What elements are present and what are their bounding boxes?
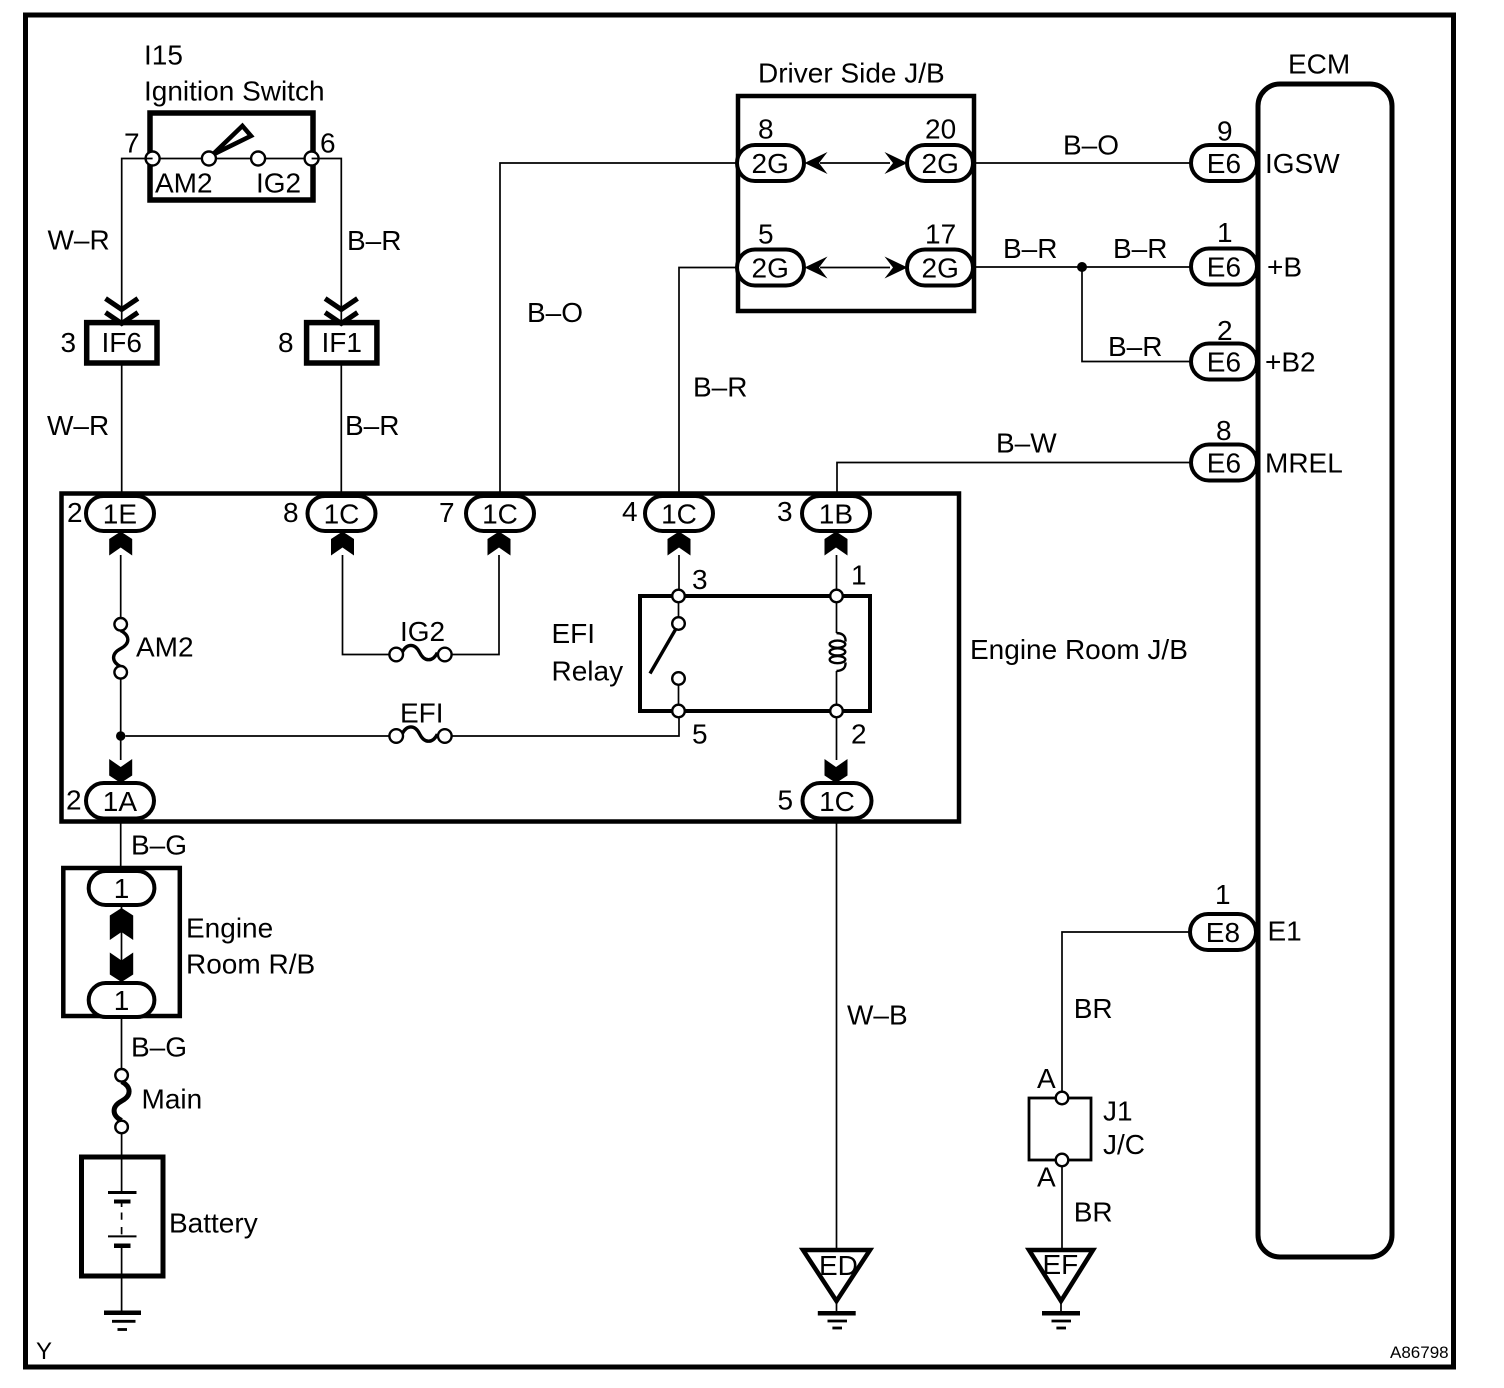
svg-text:Ignition Switch: Ignition Switch — [144, 76, 325, 107]
svg-text:EFI: EFI — [552, 618, 596, 649]
svg-text:Battery: Battery — [169, 1207, 258, 1238]
wire junction to 1A — [120, 736, 122, 760]
svg-text:9: 9 — [1217, 115, 1233, 146]
relay pin 1 terminal — [830, 590, 843, 603]
arrow into 2G pin 20 — [885, 152, 908, 174]
svg-text:IG2: IG2 — [256, 167, 301, 198]
svg-text:B–R: B–R — [1108, 331, 1162, 362]
battery plate 2 — [114, 1200, 131, 1204]
svg-text:B–R: B–R — [693, 372, 747, 403]
svg-text:AM2: AM2 — [155, 167, 213, 198]
connector 1A oval — [86, 783, 154, 819]
svg-text:8: 8 — [758, 114, 774, 145]
svg-text:3: 3 — [777, 496, 793, 527]
svg-text:5: 5 — [778, 785, 794, 816]
svg-text:EFI: EFI — [400, 697, 444, 728]
svg-text:W–R: W–R — [48, 224, 110, 255]
svg-text:E8: E8 — [1206, 917, 1240, 948]
svg-text:J/C: J/C — [1103, 1129, 1145, 1160]
svg-text:Driver Side J/B: Driver Side J/B — [758, 58, 945, 89]
svg-text:IF1: IF1 — [322, 327, 362, 358]
wire inside R/B — [121, 905, 123, 983]
arrow into 1E — [109, 532, 132, 556]
svg-text:8: 8 — [283, 497, 299, 528]
svg-text:A: A — [1037, 1063, 1056, 1094]
arrow into 2G pin 5 — [805, 257, 828, 279]
svg-text:8: 8 — [278, 327, 294, 358]
connector 1 upper oval — [89, 871, 155, 905]
svg-text:1C: 1C — [661, 499, 697, 530]
svg-text:B–G: B–G — [131, 1031, 187, 1062]
Driver Side J/B box — [738, 96, 974, 311]
connector 1C pin 7 oval — [466, 496, 534, 531]
arrow into 1A — [109, 759, 132, 783]
connector 1E oval — [86, 496, 154, 531]
wire IG2 fuse to 1C7 — [452, 555, 499, 655]
fuse IG2 — [402, 645, 437, 659]
connector 1 lower oval — [89, 983, 155, 1017]
connector 1B oval — [802, 496, 870, 531]
arrow down inside R/B — [110, 953, 133, 983]
svg-text:IGSW: IGSW — [1265, 148, 1340, 179]
connector E6 pin 1 oval — [1191, 249, 1257, 285]
svg-text:7: 7 — [124, 127, 140, 158]
wire pin7 to IF6 — [122, 159, 153, 323]
svg-text:6: 6 — [320, 127, 336, 158]
wire R/B to Main link — [121, 1017, 123, 1069]
svg-text:Engine Room J/B: Engine Room J/B — [970, 634, 1188, 665]
wire 1C4 to relay pin 3 — [678, 555, 680, 590]
svg-text:Main: Main — [142, 1083, 203, 1114]
svg-text:2G: 2G — [922, 148, 959, 179]
ignition switch AM2 contact — [202, 152, 216, 166]
battery box — [82, 1157, 164, 1276]
svg-text:I15: I15 — [144, 40, 183, 71]
ignition switch pin 7 terminal — [146, 152, 160, 166]
connector 2G pin 20 oval — [907, 145, 973, 181]
ground ED bars — [818, 1311, 856, 1316]
ignition switch internal wire — [153, 158, 312, 160]
ground EF triangle — [1029, 1250, 1093, 1301]
arrow into 2G pin 17 — [885, 257, 908, 279]
relay coil wire lower — [836, 671, 838, 705]
junction node on +B wire — [1077, 262, 1087, 272]
svg-text:1C: 1C — [482, 499, 518, 530]
battery plate 4 — [114, 1243, 131, 1248]
relay coil — [837, 633, 846, 642]
svg-text:2: 2 — [1217, 315, 1233, 346]
wire 2G pin17 to ECM +B — [973, 266, 1191, 268]
svg-text:B–R: B–R — [345, 410, 399, 441]
connector E6 pin 8 oval — [1191, 445, 1257, 481]
svg-text:2G: 2G — [752, 148, 789, 179]
wire 2G pin5 to 1C pin4 — [679, 268, 737, 497]
connector chevrons above IF6 — [106, 299, 138, 324]
wire inside Driver Side J/B row 2 — [820, 267, 890, 269]
svg-text:2G: 2G — [922, 253, 959, 284]
svg-text:2: 2 — [851, 718, 867, 749]
ground ED triangle — [803, 1250, 870, 1301]
arrow into 1B — [825, 532, 848, 556]
svg-text:E6: E6 — [1207, 148, 1241, 179]
svg-text:B–R: B–R — [347, 225, 401, 256]
svg-text:BR: BR — [1074, 993, 1113, 1024]
battery dashed center — [121, 1202, 123, 1235]
fusible link Main — [114, 1082, 129, 1121]
wire 1A to Engine Room R/B — [120, 819, 122, 872]
fuse EFI — [402, 727, 437, 741]
relay coil wire upper — [836, 602, 838, 633]
svg-text:7: 7 — [439, 497, 455, 528]
connector 2G pin 5 oval — [737, 250, 804, 286]
svg-text:1C: 1C — [324, 499, 360, 530]
ground ED stem — [836, 1301, 838, 1311]
wire Main to battery — [121, 1133, 123, 1157]
arrow into 1C pin 8 — [331, 532, 354, 556]
svg-text:J1: J1 — [1103, 1095, 1133, 1126]
ignition switch lever — [213, 126, 252, 155]
svg-text:1E: 1E — [103, 499, 137, 530]
svg-text:AM2: AM2 — [136, 631, 194, 662]
svg-text:Engine: Engine — [186, 912, 273, 943]
wire ECM MREL to 1B — [837, 463, 1191, 497]
svg-text:5: 5 — [692, 718, 708, 749]
relay pin 3 terminal — [672, 590, 685, 603]
svg-text:IG2: IG2 — [400, 616, 445, 647]
svg-text:Y: Y — [36, 1338, 52, 1365]
svg-text:EF: EF — [1043, 1249, 1079, 1280]
relay switch lower contact — [672, 672, 685, 685]
ignition switch pin 6 terminal — [305, 152, 319, 166]
svg-text:20: 20 — [925, 114, 956, 145]
svg-text:B–O: B–O — [527, 297, 583, 328]
svg-text:A: A — [1037, 1161, 1056, 1192]
wire 1C8 to IG2 fuse — [343, 555, 390, 655]
svg-text:E6: E6 — [1207, 252, 1241, 283]
svg-text:B–W: B–W — [996, 428, 1057, 459]
wire IF1 to 1C — [340, 363, 342, 496]
wire IF6 to 1E — [121, 363, 123, 496]
svg-text:17: 17 — [925, 218, 956, 249]
svg-text:2: 2 — [66, 785, 82, 816]
connector E8 pin 1 oval — [1190, 914, 1256, 950]
connector E6 pin 2 oval — [1191, 344, 1257, 380]
relay switch wire lower — [678, 685, 680, 705]
wire 1C5 to ED ground — [836, 819, 838, 1251]
svg-text:W–R: W–R — [47, 410, 109, 441]
wire junction to EFI fuse — [125, 735, 389, 737]
connector 1C pin 4 oval — [645, 496, 713, 531]
svg-text:B–G: B–G — [131, 829, 187, 860]
connector 1C pin 8 oval — [308, 496, 376, 531]
svg-text:1: 1 — [114, 985, 130, 1016]
arrow into 2G pin 8 — [805, 152, 828, 174]
wire 2G pin8 to 1C pin7 — [500, 163, 737, 496]
relay switch arm — [650, 630, 676, 674]
svg-text:1: 1 — [114, 873, 130, 904]
svg-text:MREL: MREL — [1265, 448, 1343, 479]
arrow up inside R/B — [110, 908, 133, 940]
svg-text:1: 1 — [1215, 879, 1231, 910]
svg-text:8: 8 — [1216, 415, 1232, 446]
svg-text:5: 5 — [758, 218, 774, 249]
svg-text:1A: 1A — [103, 786, 138, 817]
connector 2G pin 8 oval — [737, 145, 804, 181]
svg-text:B–O: B–O — [1063, 129, 1119, 160]
ground below battery — [104, 1310, 141, 1315]
connector 2G pin 17 oval — [907, 250, 973, 286]
svg-text:+B: +B — [1267, 252, 1302, 283]
fuse AM2 — [114, 631, 128, 667]
arrow into 1C pin 7 — [488, 532, 511, 556]
ECM box — [1258, 84, 1392, 1257]
relay pin 5 terminal — [672, 705, 685, 718]
junction node above 1A — [116, 731, 125, 740]
svg-text:A86798: A86798 — [1390, 1343, 1449, 1362]
relay switch wire upper — [678, 602, 680, 617]
svg-text:2: 2 — [67, 497, 83, 528]
wire AM2 fuse to junction — [120, 679, 122, 736]
svg-text:E1: E1 — [1268, 915, 1302, 946]
svg-text:IF6: IF6 — [102, 327, 142, 358]
wire 2G pin20 to ECM IGSW — [973, 162, 1191, 164]
svg-text:E6: E6 — [1207, 347, 1241, 378]
svg-text:3: 3 — [61, 327, 77, 358]
ignition switch I15 box — [150, 113, 313, 200]
svg-text:+B2: +B2 — [1265, 347, 1316, 378]
wire E8 to J1 J/C — [1062, 932, 1190, 1092]
battery plate 3 — [108, 1235, 137, 1237]
arrow into 1C pin 4 — [668, 532, 691, 556]
arrow into 1C pin 5 — [825, 759, 848, 783]
connector 1C pin 5 oval — [803, 783, 872, 819]
Engine Room R/B box — [63, 868, 180, 1016]
wire J/C to EF ground — [1061, 1166, 1063, 1250]
wire relay pin 2 to 1C5 — [836, 717, 838, 760]
svg-text:B–R: B–R — [1003, 233, 1057, 264]
svg-text:E6: E6 — [1207, 448, 1241, 479]
svg-text:ECM: ECM — [1288, 48, 1350, 79]
svg-text:BR: BR — [1074, 1196, 1113, 1227]
wire 1B to relay pin 1 — [836, 555, 838, 590]
svg-text:2G: 2G — [752, 253, 789, 284]
wire pin6 to IF1 — [312, 159, 342, 323]
ground EF bars — [1042, 1311, 1080, 1316]
svg-text:1: 1 — [1217, 217, 1233, 248]
svg-text:3: 3 — [692, 564, 708, 595]
junction connector J1 J/C box — [1029, 1098, 1091, 1160]
svg-text:ED: ED — [819, 1250, 858, 1281]
battery plate 1 — [108, 1191, 137, 1194]
svg-text:Relay: Relay — [552, 655, 624, 686]
wire inside Driver Side J/B row 1 — [820, 162, 890, 164]
connector chevrons above IF1 — [325, 299, 357, 324]
wire junction to ECM +B2 — [1082, 267, 1191, 362]
connector E6 pin 9 oval — [1191, 145, 1257, 181]
ignition switch IG2 contact — [251, 152, 265, 166]
J/C terminal A lower — [1056, 1154, 1069, 1167]
relay switch upper contact — [672, 617, 685, 630]
fuse IF6 box — [87, 323, 157, 363]
wire EFI fuse to relay pin 5 — [452, 717, 679, 736]
svg-text:B–R: B–R — [1113, 233, 1167, 264]
svg-text:1: 1 — [851, 559, 867, 590]
svg-text:1B: 1B — [819, 499, 853, 530]
svg-text:4: 4 — [622, 496, 638, 527]
battery top wire — [121, 1157, 123, 1193]
svg-text:1C: 1C — [819, 786, 855, 817]
battery bottom wire to ground — [121, 1246, 123, 1311]
svg-text:Room R/B: Room R/B — [186, 948, 315, 979]
ground EF stem — [1060, 1301, 1062, 1311]
wire 1E to AM2 fuse — [120, 555, 122, 618]
relay pin 2 terminal — [830, 705, 843, 718]
svg-text:W–B: W–B — [847, 999, 908, 1030]
EFI relay box — [640, 596, 870, 711]
Engine Room J/B box — [62, 494, 960, 822]
fuse IF1 box — [307, 323, 377, 363]
J/C terminal A upper — [1056, 1092, 1069, 1105]
